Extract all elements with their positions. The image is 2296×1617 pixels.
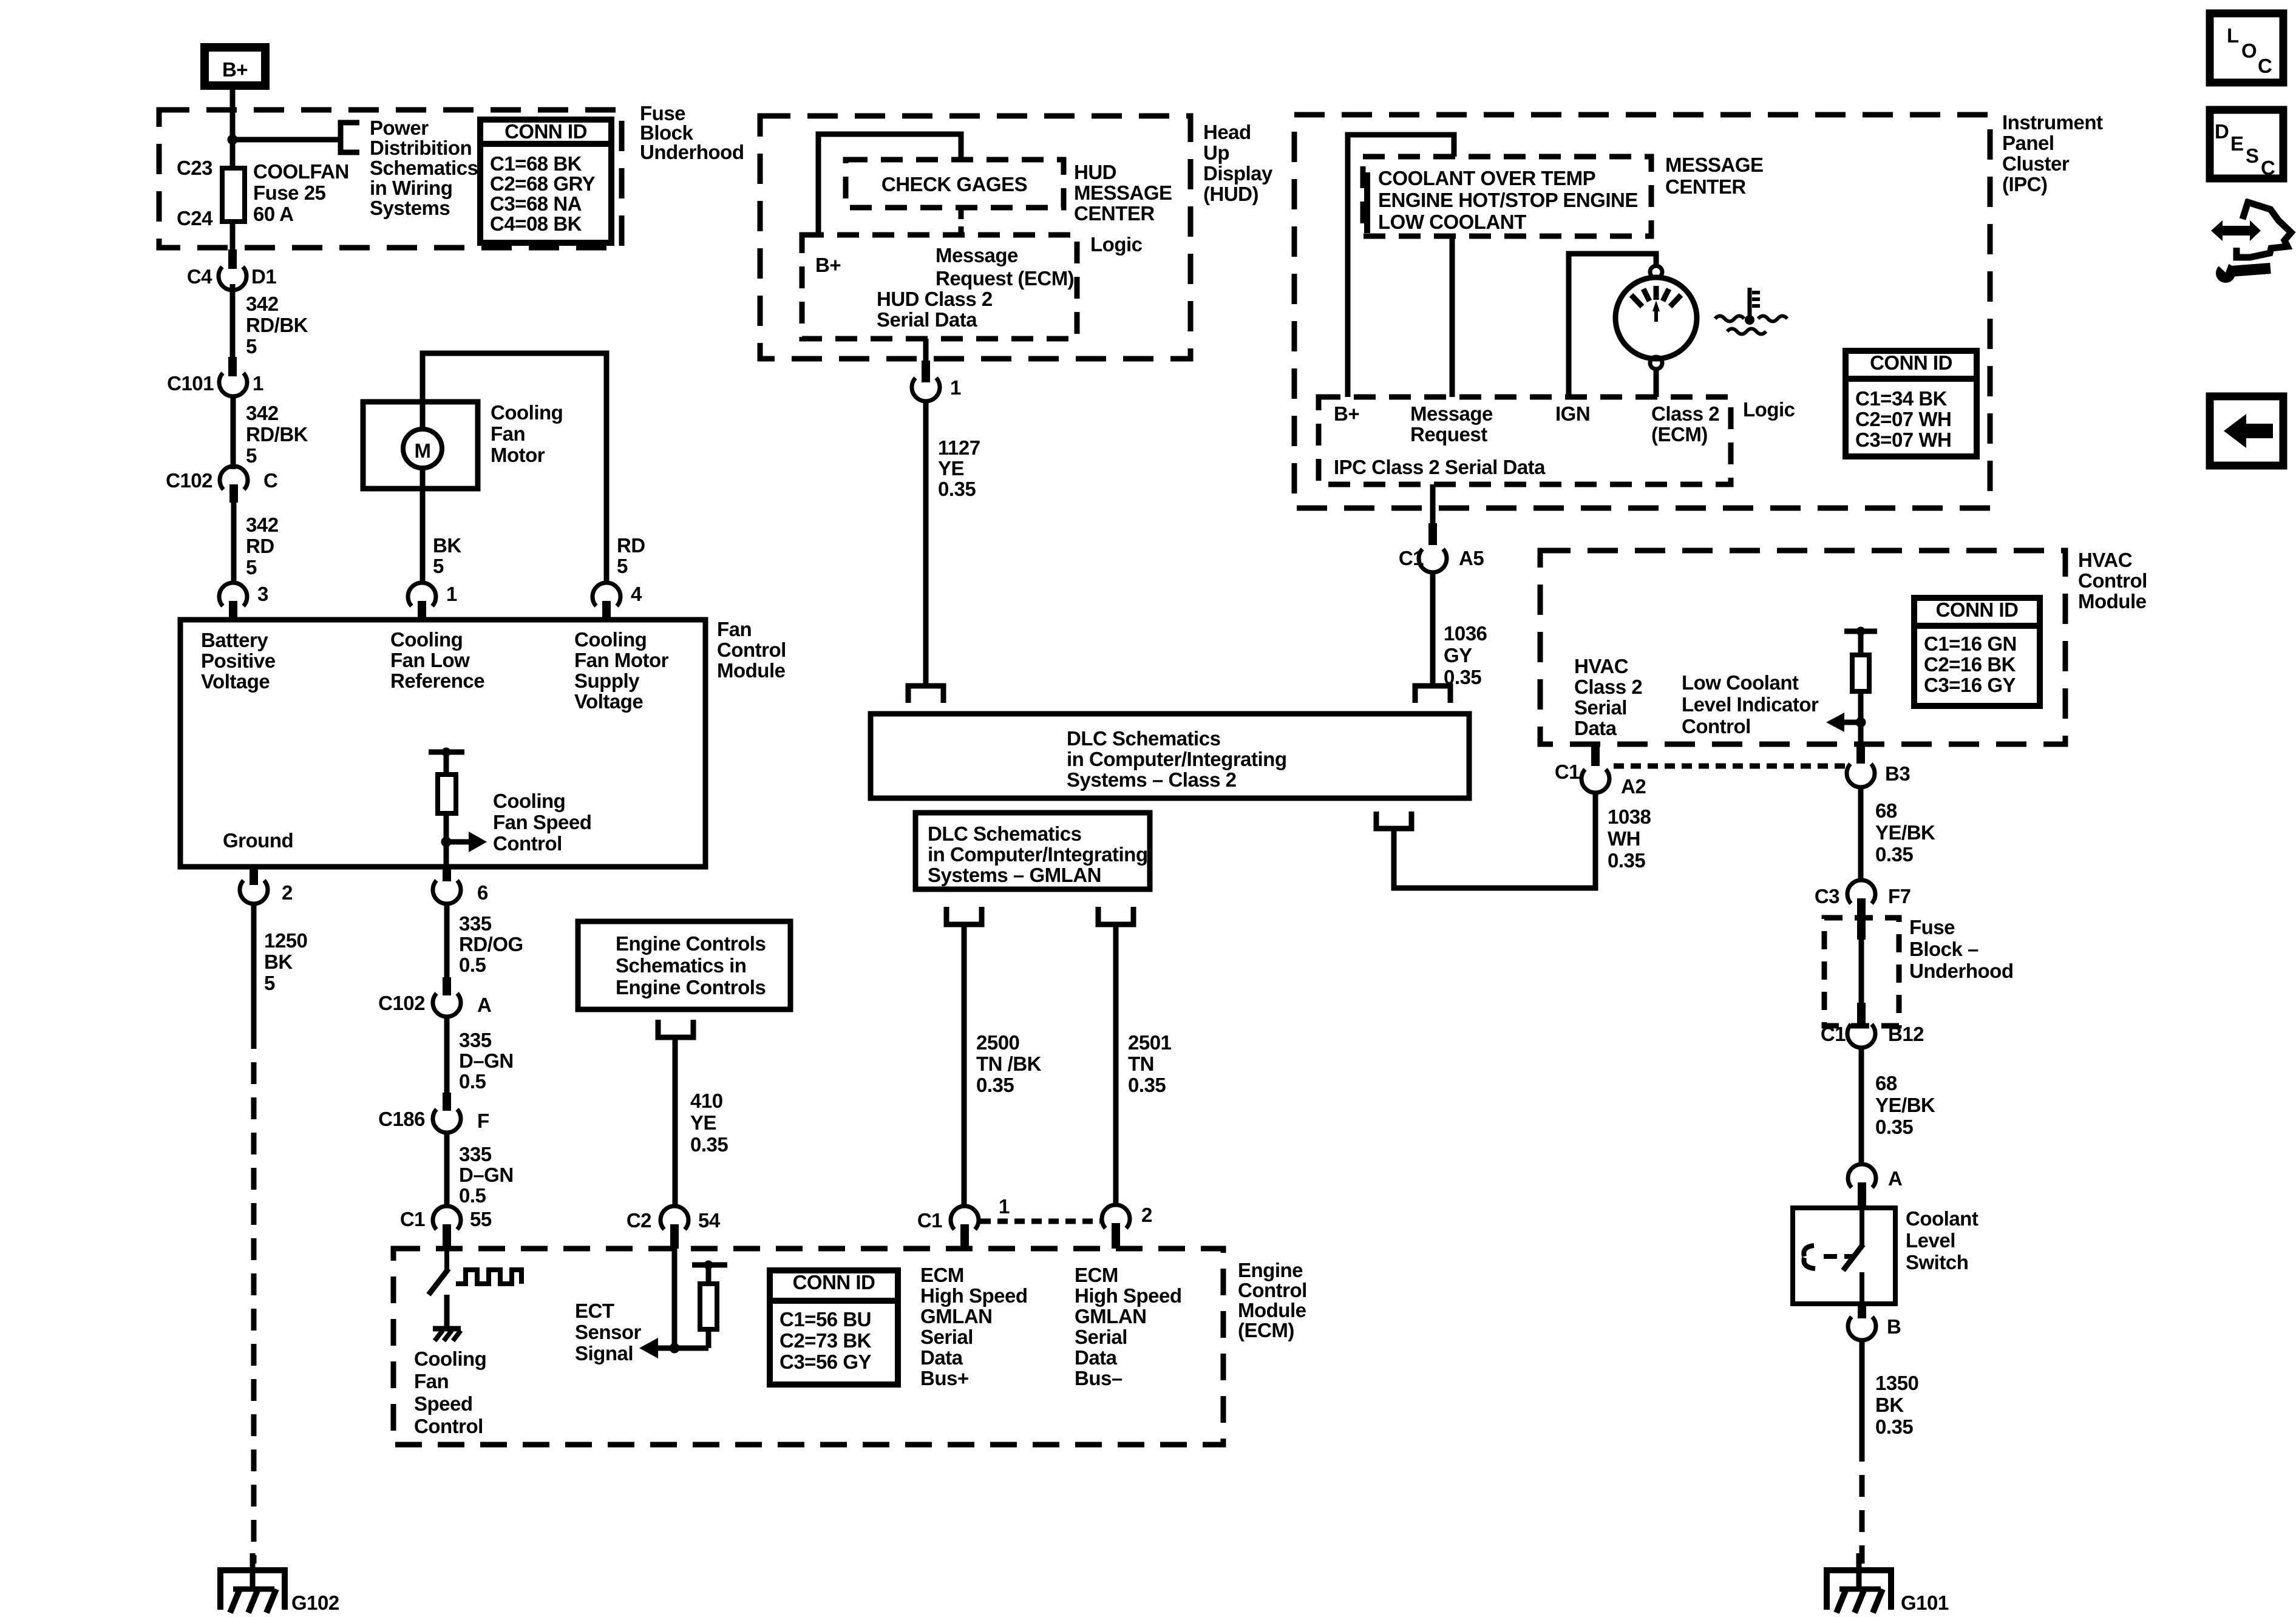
svg-text:1: 1 (999, 1195, 1010, 1218)
svg-text:Fan: Fan (717, 618, 752, 640)
svg-text:C102: C102 (166, 469, 212, 492)
svg-text:335: 335 (459, 1143, 492, 1165)
svg-text:RD/OG: RD/OG (459, 933, 523, 955)
wire label 1250 BK 5 (264, 929, 307, 994)
svg-text:C1: C1 (1399, 547, 1424, 569)
wire B+ to fuse COOLFAN (230, 90, 236, 168)
svg-text:Instrument: Instrument (2002, 111, 2103, 134)
svg-text:C: C (2258, 55, 2272, 77)
svg-text:CENTER: CENTER (1665, 175, 1746, 198)
svg-text:0.35: 0.35 (1608, 849, 1645, 872)
PWM square wave symbol (456, 1270, 521, 1284)
svg-text:in Computer/Integrating: in Computer/Integrating (928, 843, 1148, 866)
svg-text:ECT: ECT (575, 1300, 614, 1322)
svg-text:Voltage: Voltage (201, 670, 270, 693)
svg-text:C3=56 GY: C3=56 GY (779, 1351, 871, 1373)
message center display bracket (1364, 172, 1370, 233)
junction cooling fan speed control (441, 837, 452, 847)
switch pin B stub (1858, 1304, 1866, 1318)
svg-text:0.5: 0.5 (459, 954, 486, 976)
fuse block F7 stub (1857, 898, 1866, 918)
label Engine Controls Schematics in Engine Controls (616, 932, 766, 998)
svg-text:C3=16 GY: C3=16 GY (1924, 674, 2016, 696)
coolant level switch box (1793, 1208, 1895, 1304)
motor internal wires (420, 402, 426, 429)
coolant level switch contacts (1843, 1208, 1863, 1304)
svg-text:C: C (2261, 157, 2275, 179)
svg-text:Cluster: Cluster (2002, 152, 2070, 175)
wire 1350 BK solid segment (1860, 1340, 1865, 1440)
svg-text:Fan Low: Fan Low (390, 649, 470, 671)
svg-text:Cooling: Cooling (491, 401, 563, 424)
wire label 1350 BK 0.35 (1875, 1372, 1918, 1438)
ECM pin 55 stub (443, 1224, 451, 1249)
switch pin A stub (1858, 1182, 1866, 1208)
svg-text:0.35: 0.35 (1875, 843, 1913, 866)
svg-text:Serial: Serial (1075, 1326, 1127, 1348)
svg-text:B3: B3 (1885, 762, 1910, 785)
connector C3/F7 (1847, 880, 1875, 903)
svg-text:Coolant: Coolant (1906, 1207, 1978, 1230)
label Coolant Level Switch (1906, 1207, 1978, 1273)
svg-text:1: 1 (253, 372, 263, 395)
LOC icon (2210, 13, 2283, 83)
svg-text:0.35: 0.35 (976, 1074, 1014, 1096)
wire gauge to class 2 logic (1654, 369, 1659, 397)
FCM pin 2 connector (240, 881, 268, 904)
HVAC low coolant indicator resistor (1844, 627, 1877, 745)
wire 68 YE/BK segment 2 (1859, 1048, 1864, 1166)
ECT sensor pull-up resistor (692, 1261, 727, 1349)
dotted link between ECM pins 1 and 2 (980, 1219, 1100, 1224)
wire label 342 RD/BK 5 (1) (246, 293, 308, 358)
ECM pin 2 stub (1112, 1223, 1120, 1249)
connector C102-A stub (443, 977, 451, 995)
svg-text:Schematics: Schematics (370, 157, 478, 179)
svg-text:Data: Data (1574, 717, 1617, 739)
svg-text:A: A (1888, 1167, 1902, 1190)
svg-text:ENGINE HOT/STOP ENGINE: ENGINE HOT/STOP ENGINE (1378, 189, 1638, 211)
svg-text:C3=68 NA: C3=68 NA (490, 192, 582, 215)
fuse block internal stub bottom (1857, 1003, 1866, 1026)
svg-text:DLC Schematics: DLC Schematics (1067, 727, 1220, 750)
wire 410 YE to ECT sensor signal (673, 1037, 678, 1207)
svg-text:335: 335 (459, 1029, 492, 1051)
label MESSAGE CENTER (1665, 154, 1764, 198)
svg-text:COOLANT OVER TEMP: COOLANT OVER TEMP (1378, 167, 1595, 189)
svg-text:MESSAGE: MESSAGE (1074, 181, 1172, 204)
FCM pin 3 stub (229, 601, 237, 620)
label Fan Control Module (717, 618, 786, 682)
svg-text:Supply: Supply (574, 670, 640, 692)
svg-text:C1: C1 (1821, 1023, 1846, 1045)
FCM pin 4 stub (602, 601, 611, 620)
svg-text:B+: B+ (1334, 402, 1359, 425)
off-page bracket into DLC class 2 box (left) (908, 686, 943, 703)
svg-text:CONN ID: CONN ID (1870, 351, 1952, 374)
battery positive node B+ (205, 47, 265, 86)
label Instrument Panel Cluster (IPC) (2002, 111, 2103, 195)
svg-text:Fan Motor: Fan Motor (574, 649, 669, 671)
off-page bracket to Power Distribition Schematics (341, 123, 359, 152)
svg-text:ECM: ECM (1075, 1264, 1118, 1286)
arrow low coolant level indicator control (1826, 713, 1861, 732)
svg-text:C1=34 BK: C1=34 BK (1855, 387, 1948, 410)
FCM internal speed control resistor (429, 748, 464, 867)
svg-text:C1=56 BU: C1=56 BU (779, 1308, 871, 1331)
dashed link check gages to logic (959, 208, 964, 235)
connector ECM C1/1 (951, 1206, 979, 1229)
svg-text:A2: A2 (1621, 775, 1646, 798)
svg-text:D–GN: D–GN (459, 1164, 514, 1186)
fuse block underhood (right) dashed box (1824, 918, 1899, 1026)
label Fuse Block - Underhood (1909, 916, 2013, 982)
svg-text:Sensor: Sensor (575, 1321, 642, 1343)
svg-text:5: 5 (246, 556, 257, 578)
svg-text:0.35: 0.35 (1875, 1415, 1913, 1438)
svg-text:Module: Module (717, 659, 786, 682)
svg-text:5: 5 (246, 444, 257, 467)
coolant temperature thermometer icon (1715, 288, 1787, 334)
svg-text:Fuse: Fuse (1909, 916, 1955, 938)
connector C102/C (220, 466, 248, 489)
svg-text:Control: Control (414, 1415, 483, 1437)
svg-text:LOW COOLANT: LOW COOLANT (1378, 211, 1526, 233)
wire 2500 TN/BK (962, 924, 967, 1207)
svg-text:Message: Message (936, 244, 1018, 266)
svg-text:A: A (477, 994, 491, 1016)
svg-text:IGN: IGN (1555, 402, 1590, 425)
svg-text:Level Indicator: Level Indicator (1682, 693, 1819, 716)
wire junction to power distribution tap (233, 137, 340, 143)
wire 342 RD/BK segment 2 (231, 396, 236, 469)
CONN ID table IPC (1846, 351, 1977, 456)
svg-text:High Speed: High Speed (920, 1284, 1028, 1307)
cooling fan motor box (363, 402, 478, 489)
svg-text:C2=73 BK: C2=73 BK (779, 1329, 872, 1352)
svg-text:D1: D1 (251, 265, 276, 288)
svg-text:Switch: Switch (1906, 1251, 1968, 1273)
ECM cooling fan speed control switch (429, 1249, 449, 1327)
svg-text:335: 335 (459, 912, 492, 935)
svg-text:Positive: Positive (201, 649, 276, 672)
connector C101 stub (228, 357, 237, 376)
svg-text:0.5: 0.5 (459, 1070, 486, 1093)
svg-text:C1: C1 (1555, 761, 1580, 783)
wire label 68 YE/BK 0.35 (2) (1875, 1072, 1935, 1138)
label HVAC Control Module (2078, 549, 2147, 612)
svg-text:410: 410 (690, 1090, 723, 1112)
svg-text:1350: 1350 (1875, 1372, 1918, 1394)
wire label 335 RD/OG 0.5 (459, 912, 523, 976)
car with wrench icon (2211, 200, 2291, 283)
svg-text:0.35: 0.35 (1444, 666, 1481, 688)
svg-text:Power: Power (370, 117, 429, 139)
HUD logic dashed box (802, 235, 1077, 339)
FCM pin 4 connector (593, 583, 620, 606)
off-page bracket into DLC class 2 box (right) (1415, 686, 1450, 703)
svg-text:1: 1 (446, 583, 457, 605)
svg-text:C3: C3 (1815, 885, 1839, 907)
label Cooling Fan Low Reference (390, 628, 484, 692)
svg-text:GY: GY (1444, 644, 1472, 666)
svg-text:Fan: Fan (414, 1370, 449, 1392)
svg-text:Engine: Engine (1238, 1259, 1303, 1281)
wire ECT sensor signal vertical (672, 1249, 678, 1348)
svg-text:Up: Up (1203, 141, 1229, 164)
connector C4 stub (228, 249, 237, 269)
svg-text:Cooling: Cooling (493, 790, 565, 812)
IPC message center dashed box (1363, 157, 1651, 236)
svg-text:C1=16 GN: C1=16 GN (1924, 632, 2017, 655)
label Message Request (ECM) (936, 244, 1074, 290)
svg-text:F7: F7 (1888, 885, 1911, 907)
connector ECM C1/55 (433, 1206, 461, 1229)
svg-text:RD: RD (617, 534, 645, 557)
svg-text:(ECM): (ECM) (1238, 1319, 1294, 1341)
svg-text:C3=07 WH: C3=07 WH (1855, 429, 1951, 451)
svg-text:C2=07 WH: C2=07 WH (1855, 408, 1951, 430)
svg-text:G101: G101 (1901, 1592, 1949, 1614)
FCM pin 1 stub (418, 601, 426, 620)
connector B (coolant level switch) (1848, 1317, 1876, 1340)
svg-text:C4: C4 (187, 265, 212, 288)
wire label 68 YE/BK 0.35 (1) (1875, 799, 1935, 866)
junction ECT sensor signal (670, 1343, 680, 1354)
wire 1038 WH (1394, 793, 1595, 888)
svg-text:A5: A5 (1459, 547, 1484, 569)
svg-text:Data: Data (1075, 1346, 1118, 1369)
wire label 2501 TN 0.35 (1128, 1031, 1172, 1096)
wire label 410 YE 0.35 (690, 1090, 728, 1156)
svg-text:Control: Control (1238, 1279, 1307, 1301)
svg-text:Fuse 25: Fuse 25 (253, 181, 326, 204)
svg-text:YE: YE (690, 1111, 716, 1134)
svg-text:G102: G102 (291, 1592, 339, 1614)
svg-text:Fan: Fan (491, 422, 525, 445)
label HUD Class 2 Serial Data (877, 288, 993, 331)
svg-text:BK: BK (1875, 1394, 1904, 1416)
DLC schematics GMLAN box (915, 813, 1150, 889)
svg-text:TN /BK: TN /BK (976, 1053, 1042, 1075)
svg-text:C101: C101 (167, 372, 214, 395)
label Cooling Fan Motor Supply Voltage (574, 628, 669, 713)
engine controls schematics box (578, 921, 790, 1009)
svg-text:Request: Request (1410, 423, 1487, 446)
fuse block internal stub top (1857, 918, 1866, 940)
HUD message center CHECK GAGES box (846, 160, 1064, 208)
FCM pin 2 stub (250, 867, 258, 885)
wire 335 RD/OG segment (444, 904, 450, 977)
wire cooling fan motor supply loop (423, 353, 606, 585)
connector C186/F (433, 1110, 461, 1133)
label Fuse Block Underhood (640, 102, 744, 163)
svg-text:Request (ECM): Request (ECM) (936, 267, 1074, 290)
FCM pin 3 connector (219, 583, 247, 606)
svg-text:B+: B+ (815, 254, 841, 276)
label HVAC Class 2 Serial Data (1574, 655, 1642, 739)
svg-text:GMLAN: GMLAN (920, 1305, 992, 1327)
connector IPC C1/A5 (1419, 549, 1447, 572)
svg-text:0.35: 0.35 (938, 478, 976, 500)
label Power Distribition Schematics in Wiring Systems (370, 117, 478, 219)
DLC schematics class 2 box (871, 714, 1469, 798)
connector C102 stub (229, 484, 238, 503)
svg-text:Module: Module (2078, 590, 2147, 612)
head up display dashed box (760, 116, 1190, 359)
wire label 1127 YE 0.35 (938, 436, 980, 500)
svg-text:Serial: Serial (920, 1326, 973, 1348)
ground G101 symbol (1827, 1553, 1891, 1613)
svg-text:Control: Control (1682, 715, 1751, 737)
connector C1/B12 (1847, 1025, 1875, 1048)
wire 1127 YE (923, 401, 929, 686)
wire 335 D-GN segment 1 (444, 1017, 450, 1093)
connector C102/A (433, 994, 461, 1017)
svg-text:Logic: Logic (1090, 233, 1143, 256)
wire label 342 RD/BK 5 (2) (246, 402, 308, 467)
off-page bracket under engine controls box (658, 1020, 693, 1037)
svg-text:Underhood: Underhood (640, 141, 744, 163)
connector C101/1 (219, 373, 247, 396)
svg-text:High Speed: High Speed (1075, 1284, 1182, 1307)
svg-text:CONN ID: CONN ID (793, 1271, 875, 1293)
label COOLANT OVER TEMP / ENGINE HOT/STOP ENGINE / LOW COOLANT (1378, 167, 1638, 233)
ground G102 symbol (220, 1553, 285, 1613)
svg-text:342: 342 (246, 514, 279, 536)
off-page bracket under DLC class 2 box (1376, 812, 1411, 829)
DESC icon (2210, 110, 2283, 179)
svg-text:RD: RD (246, 535, 274, 557)
arrow cooling fan speed control (450, 832, 487, 852)
svg-text:Reference: Reference (390, 670, 484, 692)
svg-text:1038: 1038 (1608, 805, 1651, 828)
off-page bracket GMLAN bus- (1098, 907, 1133, 924)
svg-text:Level: Level (1906, 1229, 1955, 1252)
wire motor ground lead BK (420, 489, 426, 585)
svg-text:Bus–: Bus– (1075, 1367, 1123, 1389)
svg-text:60 A: 60 A (253, 203, 293, 225)
svg-text:C2: C2 (627, 1209, 651, 1232)
svg-text:(IPC): (IPC) (2002, 173, 2048, 195)
wire label 335 D-GN 0.5 (2) (459, 1143, 514, 1207)
CONN ID table HVAC (1914, 598, 2040, 706)
label ECM High Speed GMLAN Serial Data Bus+ (920, 1264, 1028, 1389)
HVAC control module dashed box (1540, 551, 2065, 744)
svg-text:HUD Class 2: HUD Class 2 (877, 288, 993, 310)
wire 342 RD/BK segment 1 (230, 284, 236, 357)
motor M symbol (403, 429, 442, 468)
svg-text:0.35: 0.35 (690, 1133, 728, 1156)
coolant temperature gauge (1615, 266, 1697, 369)
svg-text:C2=16 BK: C2=16 BK (1924, 653, 2016, 676)
svg-text:Engine Controls: Engine Controls (616, 976, 766, 998)
wire 335 D-GN segment 2 (444, 1133, 450, 1207)
svg-text:YE: YE (938, 457, 964, 480)
connector C4/D1 (219, 267, 246, 290)
svg-text:GMLAN: GMLAN (1075, 1305, 1146, 1327)
wire gauge to IGN (1569, 254, 1656, 397)
svg-text:Speed: Speed (414, 1392, 473, 1415)
svg-text:MESSAGE: MESSAGE (1665, 154, 1764, 176)
svg-text:Systems – Class 2: Systems – Class 2 (1067, 768, 1237, 791)
svg-text:Ground: Ground (223, 829, 293, 852)
CONN ID table fuse block underhood (480, 120, 611, 243)
wire 1250 BK solid segment (251, 904, 257, 1027)
wire HUD serial data exit (923, 339, 929, 364)
wire 1036 GY (1430, 572, 1436, 686)
svg-text:HVAC: HVAC (1574, 655, 1628, 677)
svg-text:1036: 1036 (1444, 622, 1487, 645)
svg-text:5: 5 (617, 555, 628, 577)
svg-text:Fan Speed: Fan Speed (493, 811, 591, 833)
svg-text:Bus+: Bus+ (920, 1367, 969, 1389)
svg-text:Data: Data (920, 1346, 963, 1369)
svg-text:Control: Control (493, 832, 562, 855)
svg-text:Logic: Logic (1743, 398, 1795, 421)
wire 1250 BK dashed segment to G102 (251, 1027, 257, 1564)
wire 68 YE/BK segment 1 (1858, 787, 1864, 882)
svg-text:C1: C1 (917, 1209, 942, 1232)
wire message request (IPC) (1450, 236, 1455, 397)
svg-text:B+: B+ (222, 58, 248, 81)
svg-text:Motor: Motor (491, 444, 545, 466)
svg-text:TN: TN (1128, 1053, 1154, 1075)
engine control module (ECM) dashed box (393, 1249, 1223, 1445)
CONN ID table ECM (770, 1270, 898, 1385)
wire IPC B+ to message center (1348, 135, 1454, 397)
wire label BK 5 (433, 534, 461, 577)
svg-text:68: 68 (1875, 799, 1897, 822)
svg-text:(HUD): (HUD) (1203, 183, 1258, 205)
svg-text:C4=08 BK: C4=08 BK (490, 212, 582, 235)
svg-text:COOLFAN: COOLFAN (253, 160, 349, 183)
svg-text:IPC Class 2 Serial Data: IPC Class 2 Serial Data (1334, 456, 1546, 478)
svg-text:L: L (2227, 24, 2239, 47)
IPC A5 stub (1428, 523, 1437, 545)
wire IPC class 2 serial data exit (1430, 484, 1436, 523)
svg-text:F: F (477, 1110, 489, 1132)
svg-text:2500: 2500 (976, 1031, 1019, 1054)
label Low Coolant Level Indicator Control (1682, 671, 1819, 737)
label Class 2 (ECM) (1651, 402, 1719, 446)
label Engine Control Module (ECM) (1238, 1259, 1307, 1341)
svg-text:CONN ID: CONN ID (1936, 598, 2019, 621)
svg-text:Schematics in: Schematics in (616, 954, 746, 977)
svg-text:Cooling: Cooling (574, 628, 647, 651)
svg-text:DLC Schematics: DLC Schematics (928, 822, 1081, 845)
svg-text:in Computer/Integrating: in Computer/Integrating (1067, 748, 1287, 770)
svg-text:0.35: 0.35 (1128, 1074, 1166, 1096)
svg-text:B12: B12 (1888, 1023, 1924, 1045)
svg-text:Class 2: Class 2 (1651, 402, 1719, 425)
svg-text:0.35: 0.35 (1875, 1116, 1913, 1138)
wire label 342 RD 5 (246, 514, 279, 578)
off-page bracket GMLAN bus+ (946, 907, 982, 924)
svg-text:Engine Controls: Engine Controls (616, 932, 766, 955)
svg-text:Head: Head (1203, 121, 1251, 143)
wire fuse to C4 (230, 222, 236, 249)
IPC logic dashed box (1319, 397, 1731, 484)
ECM pin 1 stub (960, 1224, 969, 1249)
instrument panel cluster dashed box (1294, 115, 1990, 508)
svg-text:HVAC: HVAC (2078, 549, 2132, 571)
svg-text:B: B (1887, 1315, 1901, 1338)
svg-text:(ECM): (ECM) (1651, 423, 1708, 446)
svg-text:CONN ID: CONN ID (504, 120, 587, 143)
FCM pin 1 connector (408, 583, 436, 606)
svg-text:2: 2 (1141, 1204, 1152, 1226)
